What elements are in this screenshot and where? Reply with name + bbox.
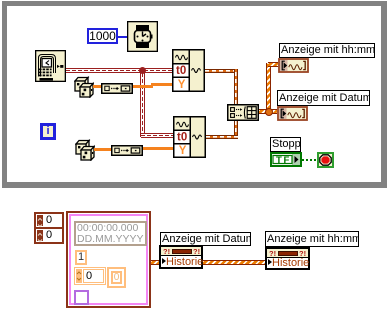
timestamp wire vertical branch [140, 70, 145, 137]
svg-text:F: F [284, 155, 290, 166]
label Anzeige mit hh:mm (top) [279, 43, 375, 58]
property node 1 [159, 245, 203, 269]
conv1 node [101, 81, 133, 92]
label Anzeige mit hh:mm (bottom) [265, 231, 359, 247]
variant element [74, 290, 89, 305]
hatched wire prop node1 to prop node2 [203, 260, 265, 265]
timestamp junction [139, 67, 146, 74]
dt element 1 [75, 250, 87, 265]
svg-text:t0: t0 [177, 132, 187, 144]
wire orange conv2 to node2 Y [143, 147, 173, 150]
dice1 random number [74, 76, 94, 98]
Y array element [74, 267, 106, 285]
while loop border [2, 1, 387, 188]
get date/time in seconds [35, 50, 66, 82]
hatched wire build array out to junction [259, 109, 277, 114]
dice2 random number [75, 139, 95, 161]
2D array index box [34, 212, 64, 244]
label Anzeige mit Datum (bottom) [160, 232, 251, 246]
conv2 node [111, 143, 143, 154]
iteration terminal i [40, 123, 56, 140]
numeric constant 1000 [87, 28, 118, 44]
timestamp wire to node2 t0 [141, 133, 173, 138]
junction blob [265, 108, 273, 116]
waveform wire vertical (behind build array) [234, 69, 238, 139]
stop button [317, 152, 334, 168]
wire orange dice1 to conv1 [93, 85, 101, 88]
waveform wire node2 out [206, 135, 238, 139]
svg-text:t0: t0 [176, 65, 186, 77]
chart indicator 1 [278, 58, 309, 73]
build array node [227, 104, 259, 121]
label Stopp [270, 137, 301, 152]
wire orange dice2 to conv2 [94, 148, 111, 151]
grayed element [107, 267, 126, 288]
timestamp element [74, 221, 147, 246]
dotted green wire [302, 159, 317, 161]
hatched wire vertical to ind1 [266, 63, 271, 112]
label Anzeige mit Datum (top) [277, 90, 370, 106]
hatched wire cluster to prop node1 [151, 260, 161, 265]
wire orange conv1 to node1 Y [133, 85, 153, 88]
svg-text:Y: Y [179, 145, 187, 157]
TF terminal [270, 152, 302, 167]
build waveform node1 [172, 49, 205, 92]
wire blue from 1000 to wait [118, 36, 127, 38]
build waveform node2 [173, 116, 206, 158]
hatched wire into ind1 [268, 62, 278, 67]
timestamp wire GDT to node1 t0 [66, 68, 172, 73]
hatched wire junction to ind2 [268, 109, 277, 114]
wait-until-next-ms-multiple [127, 21, 158, 52]
waveform wire node1 out [205, 69, 238, 73]
property node 2 [265, 247, 310, 270]
chart indicator 2 [277, 106, 308, 121]
svg-text:T: T [276, 155, 282, 166]
waveform cluster constant shell [66, 211, 151, 308]
svg-text:Y: Y [178, 79, 186, 91]
